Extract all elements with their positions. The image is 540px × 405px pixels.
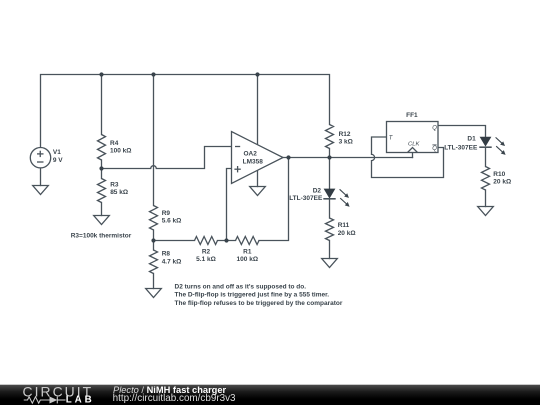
svg-text:100 kΩ: 100 kΩ — [237, 256, 258, 263]
svg-text:R12: R12 — [339, 131, 351, 138]
svg-text:R3=100k thermistor: R3=100k thermistor — [71, 233, 132, 240]
svg-text:20 kΩ: 20 kΩ — [338, 230, 356, 237]
svg-text:D2 turns on and off as it's su: D2 turns on and off as it's supposed to … — [175, 283, 307, 290]
svg-text:D2: D2 — [313, 188, 322, 195]
svg-text:V1: V1 — [53, 149, 61, 156]
svg-text:LTL-307EE: LTL-307EE — [444, 145, 478, 152]
svg-text:LTL-307EE: LTL-307EE — [289, 195, 323, 202]
svg-text:LAB: LAB — [66, 395, 95, 405]
svg-text:R8: R8 — [162, 251, 171, 258]
svg-text:20 kΩ: 20 kΩ — [493, 179, 511, 186]
svg-text:The D-flip-flop is triggered j: The D-flip-flop is triggered just fine b… — [175, 292, 330, 299]
svg-text:CLK: CLK — [408, 142, 421, 148]
svg-text:3 kΩ: 3 kΩ — [339, 139, 353, 146]
svg-text:R2: R2 — [202, 248, 211, 255]
svg-text:The flip-flop refuses to be tr: The flip-flop refuses to be triggered by… — [175, 300, 343, 307]
svg-text:FF1: FF1 — [406, 112, 418, 119]
svg-text:9 V: 9 V — [53, 157, 63, 164]
svg-text:R3: R3 — [110, 182, 119, 189]
svg-text:100 kΩ: 100 kΩ — [110, 148, 131, 155]
svg-text:R9: R9 — [162, 210, 171, 217]
svg-text:R4: R4 — [110, 140, 119, 147]
svg-text:OA2: OA2 — [244, 150, 258, 157]
svg-text:4.7 kΩ: 4.7 kΩ — [162, 258, 182, 265]
svg-text:R1: R1 — [243, 248, 252, 255]
svg-text:http://circuitlab.com/cb9r3v3: http://circuitlab.com/cb9r3v3 — [113, 393, 236, 404]
svg-text:R11: R11 — [338, 222, 350, 229]
svg-text:Q: Q — [432, 126, 437, 132]
svg-text:85 kΩ: 85 kΩ — [110, 189, 128, 196]
svg-text:5.6 kΩ: 5.6 kΩ — [162, 218, 182, 225]
svg-text:Q: Q — [432, 146, 437, 152]
svg-text:D1: D1 — [467, 136, 476, 143]
svg-text:R10: R10 — [493, 171, 505, 178]
svg-text:LM358: LM358 — [243, 159, 264, 166]
svg-text:5.1 kΩ: 5.1 kΩ — [196, 256, 216, 263]
